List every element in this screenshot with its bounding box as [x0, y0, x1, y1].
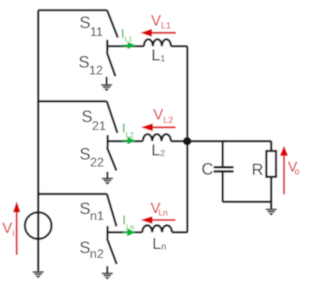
- voltage arrow V_L1 (points left): [140, 29, 176, 37]
- wire: phase-1 node to L1: [107, 45, 144, 47]
- resistor R top lead: [270, 141, 272, 151]
- node: phase-2 pole terminal bar: [106, 135, 108, 147]
- capacitor C plates: [214, 166, 234, 168]
- capacitor C top lead: [222, 141, 224, 166]
- wire: Ln output to riser: [172, 231, 188, 233]
- node: phase-1 pole terminal bar: [106, 40, 108, 52]
- ground under S22: [102, 172, 113, 185]
- wire: row 3 top feed from bus to Sn1: [38, 193, 107, 195]
- wire: phase-2 node to L2: [108, 140, 143, 142]
- node: phase-n pole terminal bar: [106, 226, 108, 238]
- wire: phase-n node to Ln: [108, 231, 143, 233]
- wire: bottom wire C to R: [223, 201, 272, 203]
- switch S22 blade: [107, 147, 116, 170]
- ground under resistor R: [266, 209, 277, 215]
- resistor R bottom lead: [270, 177, 272, 209]
- current arrow I_L1: [122, 42, 136, 49]
- ground under S12: [101, 77, 112, 91]
- wire: L1 output to riser: [171, 45, 188, 47]
- wire: input bus (left vertical from row-1 corner down through source to ground): [37, 10, 39, 271]
- switch Sn1 blade: [107, 194, 117, 226]
- voltage source Vi circle: [25, 212, 52, 239]
- wire: output node to load network: [187, 140, 271, 142]
- switch S21 blade: [107, 101, 118, 132]
- wire: L2 output to junction: [171, 140, 188, 142]
- wire: output riser joining L1, L2, Ln: [186, 46, 188, 232]
- inductor Ln: [142, 225, 172, 232]
- voltage arrow V_L2 (points left): [141, 123, 176, 131]
- capacitor C bottom lead: [222, 173, 224, 202]
- voltage arrow V_Ln (points left): [141, 216, 176, 224]
- inductor L1: [144, 39, 171, 46]
- inductor L2: [143, 134, 171, 141]
- voltage arrow V_o (points up): [280, 146, 288, 195]
- switch S11 blade: [107, 10, 118, 37]
- switch S12 blade: [107, 52, 116, 76]
- wire: row 2 top feed from bus to S21: [38, 100, 107, 102]
- svg-text:R: R: [252, 161, 264, 179]
- ground under Sn2: [102, 266, 113, 280]
- current arrow I_L2: [123, 137, 137, 145]
- wire: row 1 top feed from bus to S11: [38, 9, 107, 11]
- voltage arrow V_i (points up): [13, 201, 20, 255]
- resistor R body: [266, 151, 276, 177]
- svg-text:C: C: [202, 161, 214, 179]
- current arrow I_Ln: [123, 229, 136, 237]
- ground under source Vi: [33, 272, 44, 278]
- switch Sn2 blade: [107, 238, 117, 264]
- junction: output node dot: [183, 137, 191, 145]
